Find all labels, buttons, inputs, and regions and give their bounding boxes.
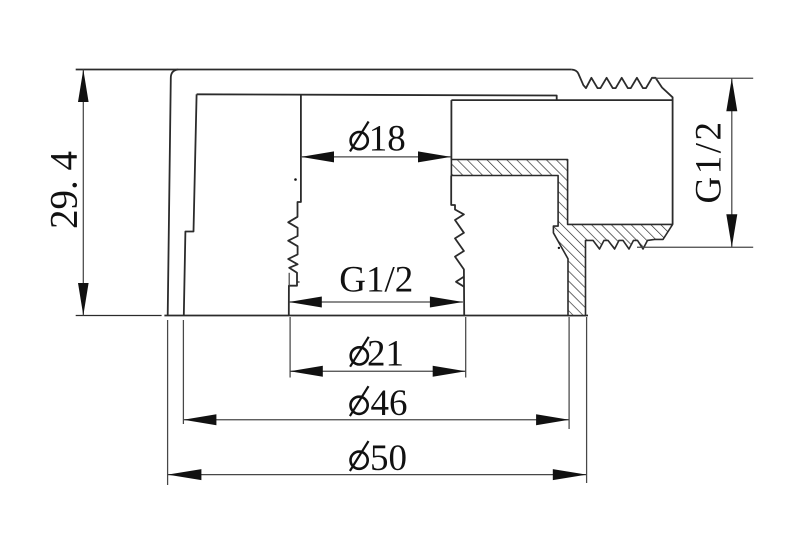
thread crest thin line left port [288,273,290,286]
arrow Ø50 right [553,469,587,480]
svg-text:50: 50 [370,438,407,479]
body bottom line [164,315,588,317]
stray dot 1 [294,178,297,181]
Ø21 extension lines [290,317,466,378]
arrow Ø46 left [183,414,216,425]
inner top line of bore [197,94,557,101]
hatched section region (right port cut) [451,160,672,316]
arrow Ø46 right [536,414,569,425]
arrow G1/2 right [430,297,463,308]
29.4 dimension line [82,70,84,316]
bottom extension segment left [76,315,162,317]
arrow G1/2 left [289,297,322,308]
thread runout stub left [297,281,300,283]
svg-text:18: 18 [369,118,406,159]
svg-text:29. 4: 29. 4 [43,151,86,229]
svg-text:G1/2: G1/2 [689,120,730,204]
phi symbol for Ø50 [350,441,369,471]
svg-text:46: 46 [371,383,408,424]
svg-text:21: 21 [367,333,404,374]
phi symbol for Ø21 [350,337,369,367]
Ø21 dimension line [290,370,466,372]
stray dot 2 [558,247,560,249]
svg-text:G1/2: G1/2 [339,260,413,301]
arrow Ø21 right [433,366,466,377]
side port bore top line [451,99,672,101]
top male thread profile (chamfer + zigzag crests) [571,70,672,225]
Ø18 dimension line [301,156,451,158]
thread runout triangle right [456,277,464,287]
Ø50 dimension line [168,474,587,476]
phi symbol for Ø46 [350,386,369,416]
arrow right G1/2 bottom [726,214,737,247]
body outer left profile (tapered with rounded top corner) [168,70,179,316]
arrow 29.4 bottom [78,283,89,316]
arrow Ø18 right [418,151,451,162]
Ø46 extension lines [183,317,569,429]
body top face line with left extension [76,69,572,71]
right G1/2 top extension line [652,77,753,79]
right G1/2 dimension line [731,78,733,247]
arrow right G1/2 top [726,78,737,111]
arrow Ø21 left [290,366,323,377]
Ø50 extension lines [168,317,587,485]
Ø46 dimension line [183,419,569,421]
Ø18 bore right wall upper [450,100,452,159]
arrow Ø18 left [301,151,334,162]
phi symbol for Ø18 [350,122,369,152]
G1/2 center dimension line [289,301,463,303]
arrow Ø50 left [168,469,202,480]
center port right wall and internal thread (zigzag) [451,176,464,316]
arrow 29.4 top [78,70,89,103]
inner left wall with step [184,94,197,315]
diameter symbols (circle + slash) [350,122,369,472]
center port left wall and internal thread (zigzag) [288,94,301,315]
right G1/2 bottom extension / thread root line [637,246,753,248]
